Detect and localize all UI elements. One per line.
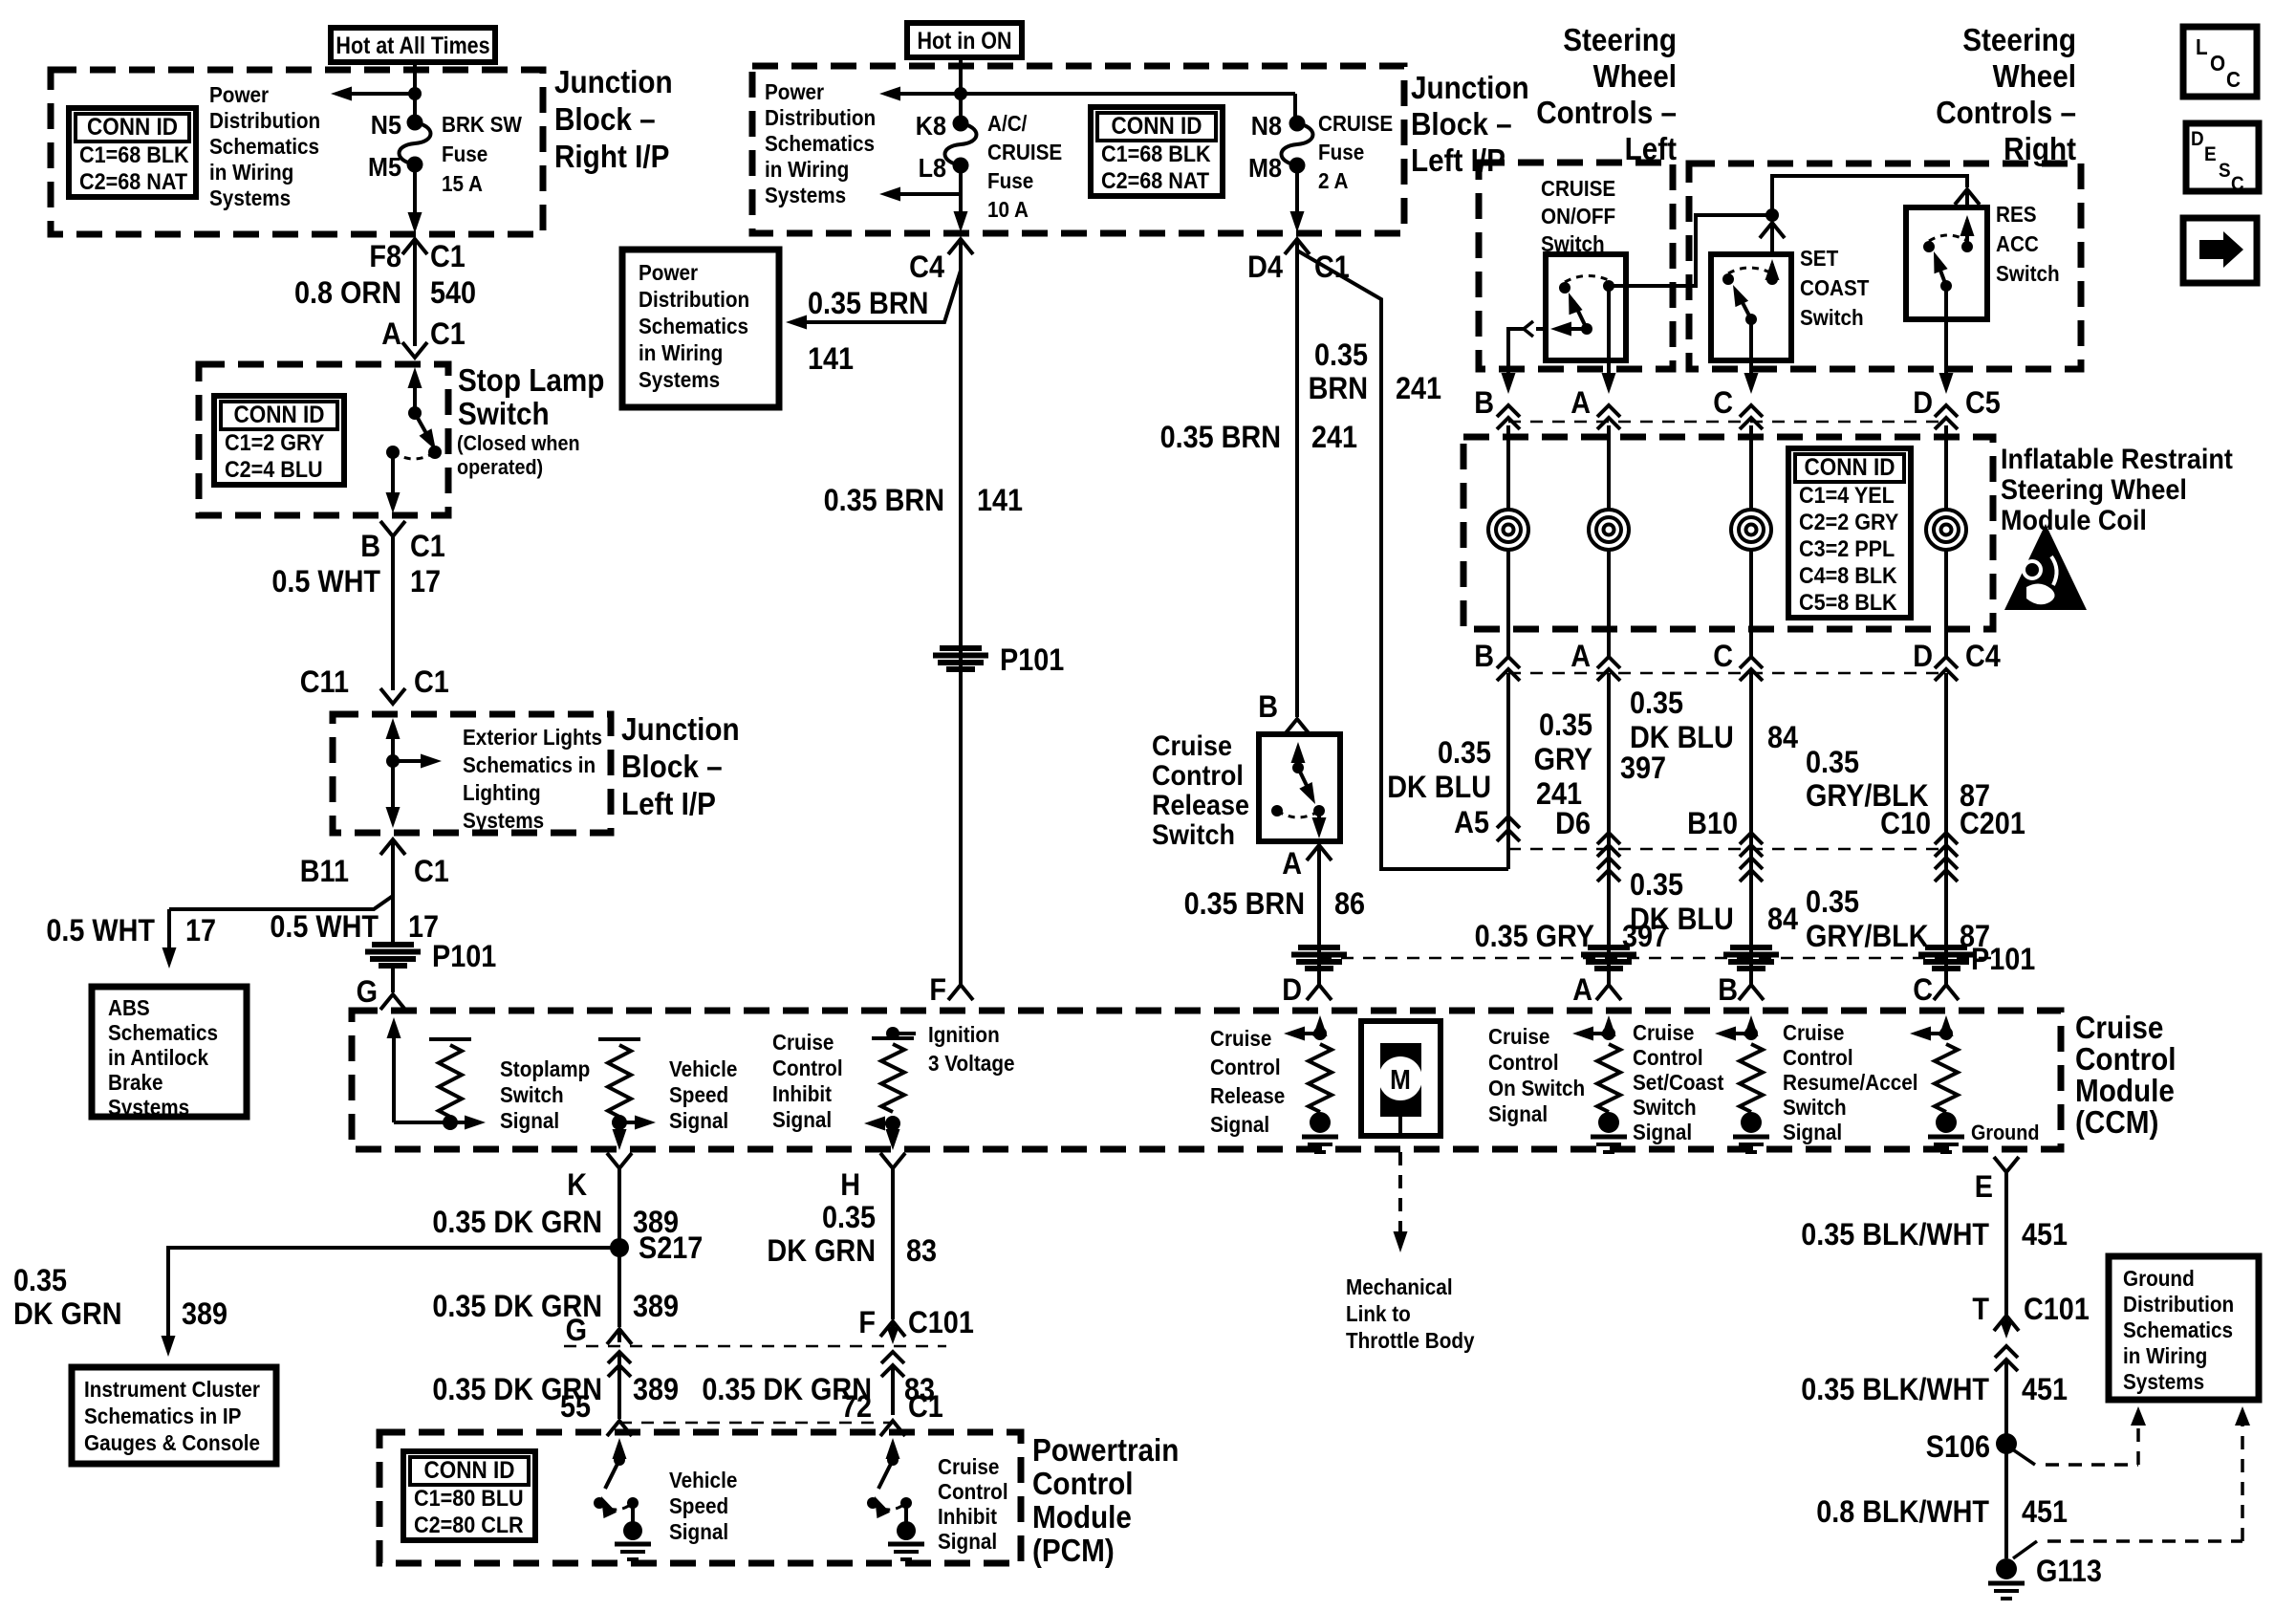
svg-text:72: 72 [841,1390,872,1425]
svg-text:Schematics in: Schematics in [463,752,596,777]
svg-text:0.35: 0.35 [822,1201,876,1235]
svg-text:Vehicle: Vehicle [669,1056,737,1081]
svg-text:83: 83 [906,1234,937,1269]
svg-text:F: F [929,973,946,1008]
svg-text:S: S [2219,160,2231,182]
vehicle speed resistor [598,1039,656,1130]
svg-text:Powertrain: Powertrain [1032,1433,1179,1469]
CONN ID table (C1=2 GRY / C2=4 BLU) [214,396,344,485]
svg-text:Distribution: Distribution [209,108,320,133]
svg-text:Distribution: Distribution [2123,1292,2234,1317]
svg-text:Systems: Systems [463,808,544,833]
svg-text:Inhibit: Inhibit [938,1504,998,1529]
label 0.35 / DK GRN | 389 (branch) [13,1264,227,1332]
label 0.8 ORN | 540 [294,276,476,311]
stop lamp switch contact dot [408,406,422,420]
stop lamp switch lower contacts and arc [386,446,442,459]
svg-text:in Wiring: in Wiring [639,340,723,365]
svg-text:C5=8 BLK: C5=8 BLK [1799,589,1897,615]
label 0.35 / DK BLU | 84 (lower) [1630,868,1798,937]
svg-text:Switch: Switch [1996,261,2060,286]
connector G [357,975,405,1010]
svg-text:Systems: Systems [2123,1369,2204,1394]
inline connector P101 (wire D) [1918,943,2035,977]
thin dashed connector line C5 [1508,421,1946,424]
release switch output arrow [1312,811,1327,838]
svg-text:Speed: Speed [669,1493,728,1518]
svg-text:Controls –: Controls – [1536,96,1677,131]
set/coast resistor [1733,1044,1769,1152]
connector F into CCM [929,973,973,1008]
wire: branch to ABS [162,896,394,969]
svg-text:0.35 BRN: 0.35 BRN [808,287,928,321]
svg-text:451: 451 [2022,1373,2068,1407]
svg-text:K8: K8 [916,111,946,142]
svg-text:Brake: Brake [108,1070,163,1095]
svg-text:C2=80 CLR: C2=80 CLR [414,1512,524,1537]
terminal A5 [1454,806,1520,841]
svg-text:ABS: ABS [108,995,150,1020]
cruise control release switch box [1259,734,1340,841]
svg-text:Signal: Signal [669,1519,728,1544]
svg-text:Systems: Systems [639,367,720,392]
wire: 0.35 DK GRN 389 (K) [617,1168,621,1327]
svg-text:17: 17 [185,914,216,948]
svg-text:CONN ID: CONN ID [1112,113,1202,140]
label 0.35 BRN / 141 (tap) [808,287,928,377]
resume/accel node [1910,1027,1953,1041]
fuse A/C CRUISE 10A (K8-L8) [945,123,977,165]
SIR coil [1589,510,1629,550]
connector K [567,1153,632,1202]
LOC icon box [2183,27,2257,97]
svg-text:Module: Module [2075,1074,2175,1109]
CCM pin B arrow [1744,1015,1759,1036]
svg-text:B: B [1718,973,1738,1008]
svg-text:0.5 WHT: 0.5 WHT [271,565,380,599]
svg-text:Release: Release [1210,1083,1285,1108]
svg-text:3 Voltage: 3 Voltage [928,1051,1014,1076]
svg-text:Stop Lamp: Stop Lamp [458,363,604,399]
thin dashed line C101 [564,1345,946,1348]
label 0.35 / DK BLU | 84 / 397 (wire C) [1620,686,1798,786]
connector into set/coast switch [1760,223,1785,256]
svg-text:Hot in ON: Hot in ON [917,27,1011,54]
svg-text:Ground: Ground [2123,1266,2195,1291]
svg-text:Set/Coast: Set/Coast [1633,1070,1724,1095]
svg-text:Cruise: Cruise [1633,1020,1694,1045]
cruise control module dashed box [352,1011,2061,1149]
svg-text:Right I/P: Right I/P [554,140,669,175]
CONN ID table coil (C1..C5) [1788,448,1911,618]
label box: Hot at All Times [331,28,495,62]
SIR coil [1926,510,1966,550]
arrow: to exterior lights schematics [393,754,442,769]
svg-text:DK GRN: DK GRN [13,1297,122,1332]
svg-text:B10: B10 [1687,807,1738,841]
svg-text:M: M [1390,1064,1411,1096]
arrow up inside junction block [386,718,401,761]
svg-text:A: A [1282,847,1302,882]
svg-text:C1: C1 [414,855,449,889]
svg-text:Cruise: Cruise [2075,1011,2163,1046]
svg-text:0.35: 0.35 [1314,338,1368,373]
svg-text:Control: Control [1032,1467,1134,1502]
wire: 0.35 BLK/WHT 451 (lower) [2004,1361,2008,1558]
svg-text:A/C/: A/C/ [987,111,1027,136]
svg-text:E: E [2204,143,2217,165]
label 0.35 BRN | 141 [824,484,1024,518]
arrow icon box [2183,218,2257,283]
svg-text:F8: F8 [369,240,401,274]
svg-text:GRY/BLK: GRY/BLK [1806,920,1929,954]
thin dashed connector line C4 [1508,672,1946,675]
cruise on/off switch wiper arrow [1550,322,1587,337]
release switch up arrow [1291,742,1306,773]
svg-text:SET: SET [1800,246,1839,271]
svg-text:C1=68 BLK: C1=68 BLK [1101,141,1211,166]
res/acc switch arm [1934,251,1952,292]
svg-text:Steering Wheel: Steering Wheel [2001,474,2187,507]
label 0.5 WHT | 17 (main) [270,910,439,945]
svg-text:Signal: Signal [1210,1112,1269,1137]
CONN ID table PCM (C1=80 BLU / C2=80 CLR) [403,1451,535,1540]
splice S217 [610,1231,703,1266]
connector E [1975,1157,2019,1204]
svg-text:C1: C1 [430,317,466,352]
pin B (steering connector C5) [1474,373,1520,429]
pin C (coil connector C4) [1713,629,1763,681]
connector G (C101) [566,1314,632,1377]
svg-text:Cruise: Cruise [772,1030,834,1055]
node dot on feed wire [408,87,422,100]
svg-text:389: 389 [633,1373,679,1407]
wire: 0.35 BRN 86 [1317,847,1321,985]
label 0.35 / GRY / 241 (wire A) [1534,708,1592,812]
label 0.35 / GRY/BLK | 87 (wire D) [1806,746,1990,814]
svg-text:M8: M8 [1248,153,1282,184]
svg-text:G113: G113 [2036,1555,2102,1589]
svg-text:0.35: 0.35 [1630,868,1683,903]
feed node dot [954,87,967,100]
arrow: power distribution feed left (lower) [879,187,961,202]
res/acc switch contacts [1923,235,1967,252]
set/coast switch box [1711,254,1791,360]
svg-text:0.35 DK GRN: 0.35 DK GRN [432,1206,602,1240]
cruise on/off switch box [1546,254,1626,360]
svg-text:C4: C4 [909,250,944,285]
svg-text:C2=2 GRY: C2=2 GRY [1799,509,1898,534]
steering wheel controls left dashed box [1479,163,1673,369]
svg-text:in Antilock: in Antilock [108,1045,209,1070]
svg-text:DK BLU: DK BLU [1387,771,1491,805]
svg-text:ACC: ACC [1996,231,2039,256]
svg-text:B: B [1258,690,1278,725]
wire: branch to instrument cluster [162,1248,620,1357]
instrument cluster box [72,1367,276,1464]
arrow into stop lamp switch [408,367,422,413]
junction node dot [386,754,400,768]
CCM pin C arrow [1939,1015,1954,1036]
svg-text:B: B [1474,386,1494,421]
svg-text:CONN ID: CONN ID [234,402,325,428]
svg-text:E: E [1975,1170,1993,1205]
svg-text:in Wiring: in Wiring [209,160,293,185]
svg-text:Systems: Systems [765,183,846,207]
terminal B10 [1687,807,1763,882]
wire: on/off switch B output [1508,321,1546,382]
thin dashed line C1 (PCM) [619,1422,892,1425]
svg-text:Ground: Ground [1971,1121,2039,1144]
connector B11/C1 [300,839,449,888]
svg-text:B: B [360,530,380,564]
svg-text:Control: Control [1488,1050,1559,1075]
svg-text:operated): operated) [457,456,543,479]
pin B (coil connector C4) [1474,629,1520,681]
inline connector P101 (ignition wire) [933,643,1064,678]
res/acc switch box [1906,207,1987,319]
svg-text:Control: Control [1152,760,1244,793]
pin D (steering connector C5) [1913,373,1958,429]
svg-text:Junction: Junction [621,712,740,748]
svg-text:(CCM): (CCM) [2075,1105,2158,1141]
svg-text:A: A [1570,386,1591,421]
wire: set/coast output C [1749,319,1753,382]
inline connector P101 (wire C) [1723,947,1779,969]
pin A (steering connector C5) [1570,373,1620,429]
inline connector P101 (wire A) [1581,947,1636,969]
svg-text:C1: C1 [414,665,449,700]
svg-text:C3=2 PPL: C3=2 PPL [1799,535,1895,561]
svg-text:Systems: Systems [108,1095,189,1120]
svg-text:Control: Control [1783,1045,1853,1070]
junction block dashed box (Hot in ON) [752,66,1404,233]
svg-text:141: 141 [977,484,1023,518]
wire through coil [1749,425,1753,629]
svg-text:Ignition: Ignition [928,1022,1000,1047]
svg-text:BRN: BRN [1309,372,1368,406]
wire through coil [1607,425,1611,629]
terminal 72/C1 [841,1390,943,1436]
svg-text:Block –: Block – [554,102,656,138]
svg-text:0.35 BLK/WHT: 0.35 BLK/WHT [1801,1218,1989,1252]
svg-text:10 A: 10 A [987,197,1029,222]
svg-text:Signal: Signal [1783,1120,1842,1144]
svg-text:Steering: Steering [1962,23,2076,58]
wire C to B10 [1749,673,1753,985]
svg-text:Block –: Block – [1411,107,1512,142]
inline connector P101 (release) [1291,947,1347,969]
svg-text:C4: C4 [1965,640,2001,674]
svg-text:D: D [1913,640,1933,674]
DESC icon box [2186,123,2259,195]
arrow: power distribution feed left (upper) [879,87,961,101]
ABS schematics box [92,987,247,1117]
svg-text:(Closed when: (Closed when [457,432,580,455]
svg-text:0.35 BRN: 0.35 BRN [824,484,944,518]
svg-text:Wheel: Wheel [1593,59,1677,95]
svg-text:Throttle Body: Throttle Body [1346,1328,1475,1353]
svg-text:Schematics: Schematics [765,131,875,156]
svg-text:GRY: GRY [1534,743,1592,777]
svg-text:Systems: Systems [209,185,291,210]
svg-text:Fuse: Fuse [1318,140,1364,164]
svg-text:C11: C11 [300,665,349,700]
pin C (steering connector C5) [1713,373,1763,429]
svg-text:0.35: 0.35 [13,1264,67,1298]
svg-text:Schematics: Schematics [639,314,748,338]
svg-text:C4=8 BLK: C4=8 BLK [1799,562,1897,588]
dashed link: CCM motor to throttle body [1394,1152,1408,1252]
label 0.35 BRN | 86 [1184,887,1365,922]
svg-text:P101: P101 [1971,943,2035,977]
svg-text:Wheel: Wheel [1993,59,2076,95]
svg-text:C1=68 BLK: C1=68 BLK [79,142,189,167]
label 0.35 / BRN | 241 (branch) [1309,338,1442,406]
set/coast switch up arrow [1765,259,1780,285]
svg-text:Release: Release [1152,790,1249,822]
label 0.5 WHT | 17 (branch) [46,914,216,948]
svg-text:Block –: Block – [621,750,723,785]
ground distribution tap 1 [2011,1406,2146,1465]
wire: from Hot at All Times down to node [413,62,417,122]
wire: fuse M8 down to box edge [1290,165,1305,232]
svg-text:Link to: Link to [1346,1301,1411,1326]
wire through coil [1944,425,1948,629]
SIR coil [1488,510,1528,550]
svg-text:C2=68 NAT: C2=68 NAT [1101,167,1209,193]
inline connector P101 (left) [365,940,496,974]
wire: to res/acc [1772,176,1967,215]
svg-text:Signal: Signal [772,1107,832,1132]
svg-text:C101: C101 [908,1306,974,1340]
wire: 0.35 BRN 141 tap to power distribution box [786,271,961,330]
on switch node [1572,1027,1615,1041]
connector T/C101 [1972,1293,2089,1371]
junction block Right I/P dashed box [51,70,543,234]
terminal 55 [560,1390,632,1436]
wire: 0.35 DK GRN 83 (to PCM) [891,1367,895,1415]
svg-text:F: F [858,1306,876,1340]
label 0.35 / DK BLU (wire B) [1387,736,1491,805]
connector B into CCM [1718,973,1764,1008]
svg-text:C1: C1 [430,240,466,274]
svg-text:C10: C10 [1880,807,1931,841]
svg-text:Inhibit: Inhibit [772,1081,833,1106]
wire: into CCM pin G [391,965,395,992]
svg-text:S106: S106 [1926,1430,1990,1465]
svg-text:N8: N8 [1251,111,1282,142]
svg-text:B: B [1474,640,1494,674]
wire: 0.35 BLK/WHT 451 [2004,1172,2008,1317]
cruise on/off switch contacts [1559,275,1614,294]
svg-text:C101: C101 [2024,1293,2090,1327]
svg-text:0.35: 0.35 [1806,746,1859,780]
wire: res/acc output D [1944,286,1948,382]
pin A (coil connector C4) [1570,629,1620,681]
svg-text:0.8 BLK/WHT: 0.8 BLK/WHT [1816,1495,1989,1530]
svg-text:Cruise: Cruise [938,1454,999,1479]
CCM pin D arrow [1313,1015,1328,1036]
svg-text:Switch: Switch [458,397,550,432]
PCM vehicle speed switch [594,1438,651,1559]
svg-text:A: A [1572,973,1592,1008]
connector D into CCM [1282,973,1332,1008]
svg-text:N5: N5 [371,110,401,141]
svg-text:Power: Power [209,82,270,107]
wire: 0.35 DK GRN 83 (H) [891,1168,895,1319]
svg-text:397: 397 [1620,751,1666,786]
svg-text:Cruise: Cruise [1783,1020,1844,1045]
svg-text:G: G [357,975,378,1010]
svg-text:D: D [2191,128,2204,150]
svg-text:COAST: COAST [1800,275,1870,300]
svg-text:Switch: Switch [1800,305,1864,330]
label 0.5 WHT | 17 [271,565,441,599]
svg-text:D6: D6 [1555,807,1591,841]
wire: fuse M5 down to box edge [408,164,422,233]
svg-text:BRK SW: BRK SW [442,112,522,137]
svg-text:Lighting: Lighting [463,780,541,805]
svg-text:C2=4 BLU: C2=4 BLU [225,456,323,482]
wire: on/off switch A output [1607,286,1611,382]
svg-text:2 A: 2 A [1318,168,1349,193]
svg-text:Control: Control [938,1479,1008,1504]
wire: 0.8 ORN 540 [413,241,417,346]
svg-text:DK BLU: DK BLU [1630,721,1734,755]
text: Stop Lamp Switch (Closed when operated) [457,363,604,480]
svg-text:A: A [381,317,401,352]
svg-text:451: 451 [2022,1218,2068,1252]
svg-text:L8: L8 [919,153,946,184]
wire: down from B11 [391,841,395,943]
svg-text:86: 86 [1334,887,1365,922]
svg-text:Switch: Switch [500,1082,564,1107]
svg-text:Junction: Junction [1411,71,1529,106]
PCM cruise control inhibit switch [867,1438,924,1559]
svg-text:Speed: Speed [669,1082,728,1107]
svg-text:0.35 BLK/WHT: 0.35 BLK/WHT [1801,1373,1989,1407]
wire: 0.5 WHT 17 down [391,536,395,690]
resume/accel resistor [1928,1044,1964,1152]
connector into res/acc switch [1955,189,1980,209]
label 0.35 DK GRN | 83 (lower) [702,1373,935,1407]
wire A to D6 [1607,673,1611,985]
connector A/C1 [381,317,466,358]
stop lamp switch arm [415,413,436,450]
svg-text:241: 241 [1311,421,1357,455]
svg-text:CRUISE: CRUISE [1541,176,1615,201]
CONN ID table middle (C1=68 BLK / C2=68 NAT) [1091,107,1223,196]
svg-text:C1: C1 [410,530,445,564]
ground distribution box [2109,1256,2259,1400]
wire B to A5 [1506,673,1510,869]
svg-text:389: 389 [633,1290,679,1324]
svg-text:C: C [2231,173,2244,195]
CONN ID table (C1=68 BLK / C2=68 NAT) [69,108,196,197]
set/coast node [1715,1027,1758,1041]
fuse BRK SW 15A (N5-M5) [400,122,431,164]
wire: 0.35 DK GRN 389 (to PCM) [617,1352,621,1419]
label 0.8 BLK/WHT | 451 [1816,1495,2068,1530]
svg-text:T: T [1972,1293,1989,1327]
svg-text:0.35: 0.35 [1438,736,1491,771]
svg-text:K: K [567,1168,587,1203]
svg-text:S217: S217 [639,1231,703,1266]
release resistor [1302,1044,1338,1152]
svg-text:CONN ID: CONN ID [87,114,178,141]
svg-text:Switch: Switch [1783,1095,1847,1120]
